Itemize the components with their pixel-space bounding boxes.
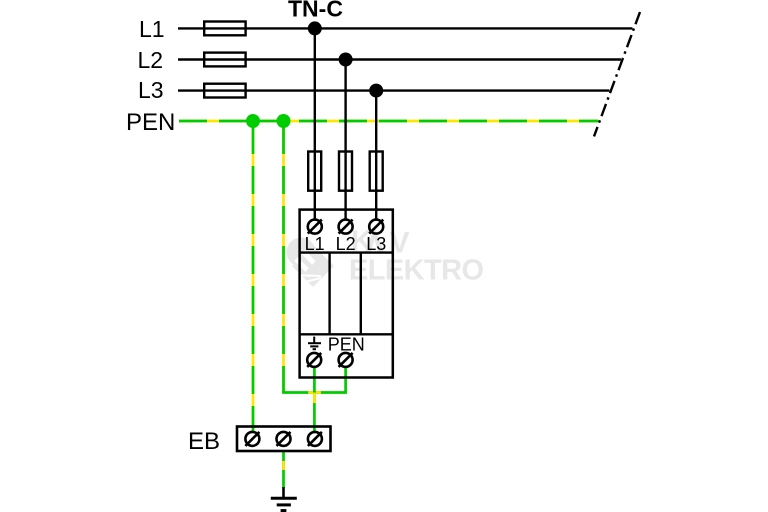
earth symbol inside SPD bbox=[308, 337, 321, 350]
SPD inner separator bottom bbox=[300, 333, 393, 335]
SPD U1 box bbox=[300, 210, 393, 378]
svg-text:EB: EB bbox=[188, 428, 220, 455]
svg-text:PEN: PEN bbox=[328, 334, 365, 354]
EB equipotential bar bbox=[237, 427, 331, 452]
node PEN1 (green junction dot) bbox=[246, 114, 260, 128]
SPD inner separator top bbox=[300, 251, 393, 253]
svg-text:L2: L2 bbox=[336, 234, 356, 254]
SPD module divider 2 bbox=[360, 253, 362, 335]
watermark text KV bbox=[351, 226, 410, 260]
EB terminal 3 (screw) bbox=[308, 432, 322, 446]
node L2 (junction dot) bbox=[339, 53, 353, 67]
svg-text:L3: L3 bbox=[138, 77, 164, 103]
fuse F6 (vertical, phase L3) bbox=[370, 152, 383, 191]
svg-text:L2: L2 bbox=[138, 47, 164, 73]
wire L1 vertical drop bbox=[314, 28, 316, 220]
wire EB to ground bbox=[282, 451, 285, 488]
svg-text:TN-C: TN-C bbox=[288, 0, 343, 22]
svg-text:PEN: PEN bbox=[126, 109, 175, 136]
wire PEN horizontal (green/yellow) bbox=[179, 120, 598, 123]
node L3 (junction dot) bbox=[369, 84, 383, 98]
wire L3 vertical drop bbox=[375, 91, 377, 220]
terminal L2 (screw) bbox=[339, 220, 353, 234]
fuse F1 (line L1) bbox=[204, 22, 245, 36]
distribution boundary (dash-dot diagonal) bbox=[594, 12, 640, 136]
node PEN2 (green junction dot) bbox=[277, 114, 291, 128]
svg-text:L3: L3 bbox=[366, 234, 386, 254]
EB terminal 1 (screw) bbox=[245, 432, 259, 446]
wire PEN to EB (left vertical from node PEN1) bbox=[252, 121, 255, 433]
ground bbox=[271, 487, 297, 511]
fuse F2 (line L2) bbox=[204, 53, 245, 67]
fuse F3 (line L3) bbox=[204, 84, 245, 98]
fuse F4 (vertical, phase L1) bbox=[308, 152, 321, 191]
svg-text:L1: L1 bbox=[139, 16, 165, 42]
node L1 (junction dot) bbox=[308, 21, 322, 35]
EB terminal 2 (screw) bbox=[277, 432, 291, 446]
SPD module divider 1 bbox=[328, 253, 330, 335]
svg-text:L1: L1 bbox=[305, 234, 325, 254]
wire L2 horizontal bbox=[178, 58, 621, 60]
wire L3 horizontal bbox=[178, 89, 609, 91]
wire L2 vertical drop bbox=[344, 60, 346, 221]
wire PEN to SPD PEN terminal (from node PEN2) bbox=[284, 121, 346, 393]
fuse F5 (vertical, phase L2) bbox=[339, 152, 352, 191]
terminal earth (screw) bbox=[307, 353, 321, 367]
svg-text:ELEKTRO: ELEKTRO bbox=[349, 255, 484, 287]
terminal L1 (screw) bbox=[308, 220, 322, 234]
wire L1 horizontal bbox=[178, 27, 632, 29]
wire SPD earth terminal to EB bbox=[313, 367, 316, 433]
terminal PEN (screw) bbox=[339, 353, 353, 367]
watermark logo KV Elektro bbox=[287, 238, 335, 288]
terminal L3 (screw) bbox=[369, 220, 383, 234]
